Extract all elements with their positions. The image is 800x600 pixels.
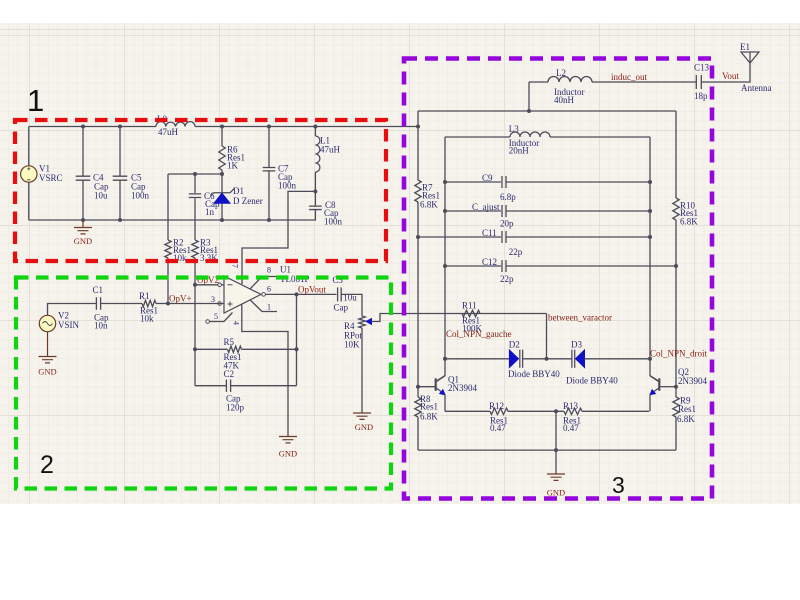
svg-text:GND: GND <box>355 422 373 432</box>
junction C_ajust right <box>648 209 652 213</box>
wire R2 column upper <box>167 174 169 240</box>
resistor R8 <box>415 397 421 417</box>
svg-text:47uH: 47uH <box>320 145 341 155</box>
svg-text:OpV+: OpV+ <box>169 294 192 304</box>
pin 1 stub <box>250 300 277 312</box>
junction L2 riser <box>527 109 531 113</box>
wire emitter row middle <box>508 410 564 412</box>
resistor R11 <box>462 310 480 316</box>
svg-text:10n: 10n <box>94 321 108 331</box>
wire L2 to C13 <box>592 81 696 83</box>
region box 2 green dashed <box>16 278 391 489</box>
capacitor C5 <box>119 127 121 177</box>
svg-text:7: 7 <box>231 264 240 268</box>
svg-text:Antenna: Antenna <box>741 83 772 93</box>
svg-text:Cap: Cap <box>334 303 349 313</box>
diode D2 varactor <box>509 350 518 368</box>
svg-text:GND: GND <box>38 367 56 377</box>
svg-text:6.8K: 6.8K <box>420 412 438 422</box>
inductor L3 <box>510 132 550 137</box>
svg-text:OpVout: OpVout <box>298 285 326 295</box>
svg-text:40nH: 40nH <box>554 95 575 105</box>
svg-text:0.47: 0.47 <box>563 423 579 433</box>
resistor R7 <box>415 180 421 202</box>
svg-text:1K: 1K <box>227 161 239 171</box>
svg-text:6.8K: 6.8K <box>677 414 695 424</box>
svg-text:1: 1 <box>267 303 271 312</box>
svg-text:U1: U1 <box>280 265 291 275</box>
svg-text:R5: R5 <box>224 337 235 347</box>
antenna E1 <box>741 52 759 63</box>
wire outer left column middle <box>417 202 419 397</box>
inductor L2 riser <box>528 82 530 111</box>
svg-text:between_varactor: between_varactor <box>548 313 612 323</box>
wire Q2 emitter <box>649 394 651 411</box>
svg-text:20nH: 20nH <box>509 146 530 156</box>
svg-text:D1: D1 <box>233 186 244 196</box>
wire outer left column upper <box>417 111 419 180</box>
capacitor C2 <box>195 385 226 387</box>
resistor R2 <box>165 240 171 258</box>
resistor R3 <box>192 240 198 258</box>
wire Q1 emitter <box>444 394 446 411</box>
svg-text:100n: 100n <box>131 191 150 201</box>
svg-text:VSIN: VSIN <box>58 320 80 330</box>
svg-text:R12: R12 <box>489 401 504 411</box>
svg-text:GND: GND <box>74 236 92 246</box>
junction C11 right <box>648 235 652 239</box>
resistor R12 <box>490 408 508 414</box>
junction C9 left <box>443 180 447 184</box>
svg-text:1: 1 <box>27 83 44 118</box>
node V1 top wire <box>28 127 30 167</box>
region box 3 purple dashed <box>404 59 712 499</box>
capacitor C11 <box>418 236 501 238</box>
svg-text:C2: C2 <box>224 369 235 379</box>
potentiometer R4 RPot <box>359 316 365 328</box>
svg-text:R11: R11 <box>462 301 477 311</box>
wire C3 to R4 <box>341 294 362 316</box>
wire outer top rail <box>418 110 676 112</box>
svg-text:3: 3 <box>211 295 215 304</box>
svg-text:47uH: 47uH <box>158 127 179 137</box>
pin 8 stub <box>250 277 277 290</box>
capacitor C_ajust <box>445 210 501 212</box>
svg-text:Diode BBY40: Diode BBY40 <box>566 376 618 386</box>
capacitor C1 <box>96 297 100 309</box>
ground GND R4 <box>353 413 371 419</box>
wire feedback column <box>296 294 298 385</box>
junction R5 left <box>193 347 197 351</box>
wire output <box>262 293 266 297</box>
svg-text:C_ajust: C_ajust <box>472 202 500 212</box>
capacitor C13 <box>696 75 701 89</box>
svg-text:L2: L2 <box>556 68 566 78</box>
svg-text:E1: E1 <box>740 42 750 52</box>
junction Q1 base <box>416 385 420 389</box>
capacitor C3 <box>338 287 342 301</box>
wire V2 top <box>48 304 97 316</box>
svg-text:GND: GND <box>279 449 297 459</box>
svg-text:2N3904: 2N3904 <box>678 376 707 386</box>
wire top supply rail right <box>195 126 418 128</box>
svg-text:VSRC: VSRC <box>39 173 63 183</box>
svg-text:2: 2 <box>40 451 54 479</box>
svg-text:10K: 10K <box>344 340 360 350</box>
svg-text:Res1: Res1 <box>678 404 696 414</box>
svg-text:C11: C11 <box>482 228 497 238</box>
wire outer right column lower <box>675 417 677 450</box>
wire top inner rail right <box>550 136 650 138</box>
svg-text:5: 5 <box>214 312 218 321</box>
junction C6 top <box>193 172 197 176</box>
svg-text:C9: C9 <box>482 173 493 183</box>
junction L1 bottom <box>313 189 317 193</box>
junction D1 bottom <box>220 218 224 222</box>
svg-text:6.8p: 6.8p <box>500 192 516 202</box>
junction C4 top <box>81 125 85 129</box>
op-amp U1 TL081P <box>224 276 261 313</box>
junction varactor right <box>648 357 652 361</box>
capacitor C7 <box>268 127 270 168</box>
wire outer right column middle <box>675 220 677 397</box>
resistor R9 <box>673 397 679 417</box>
junction R5 right <box>295 347 299 351</box>
resistor R5 <box>195 348 228 350</box>
capacitor C12 <box>445 265 501 267</box>
junction C5 top <box>118 125 122 129</box>
ground GND region3 <box>547 474 565 480</box>
svg-text:C1: C1 <box>93 285 104 295</box>
junction R6 bottom <box>220 172 224 176</box>
svg-text:120p: 120p <box>226 403 245 413</box>
capacitor C8 <box>314 191 316 206</box>
svg-text:Vout: Vout <box>722 71 739 81</box>
svg-text:6: 6 <box>267 285 271 294</box>
svg-text:Col_NPN_gauche: Col_NPN_gauche <box>446 329 512 339</box>
junction Q2 base <box>674 385 678 389</box>
wire C13 to antenna <box>701 63 750 82</box>
junction C9 right <box>648 180 652 184</box>
junction OpV2 <box>193 283 197 287</box>
svg-text:R1: R1 <box>139 291 150 301</box>
ground GND V2 <box>47 332 49 357</box>
junction R6 top <box>220 125 224 129</box>
resistor R13 <box>564 408 582 414</box>
pin 5 stub <box>206 320 210 324</box>
svg-text:R4: R4 <box>344 321 355 331</box>
svg-text:induc_out: induc_out <box>611 72 647 82</box>
svg-text:10k: 10k <box>140 314 154 324</box>
svg-text:100n: 100n <box>278 180 297 190</box>
svg-text:4: 4 <box>232 321 241 325</box>
wire Q2 base <box>660 386 676 388</box>
junction varactor mid <box>545 357 549 361</box>
wire R1 to opamp <box>156 303 221 305</box>
voltage source V2 <box>39 315 55 331</box>
wire R2 lower <box>167 258 169 304</box>
svg-text:6.8K: 6.8K <box>680 217 698 227</box>
svg-text:R13: R13 <box>563 401 579 411</box>
svg-text:Col_NPN_droit: Col_NPN_droit <box>650 349 708 359</box>
svg-text:3: 3 <box>612 472 625 498</box>
junction ground rail <box>554 448 558 452</box>
svg-text:10u: 10u <box>94 191 108 201</box>
wire ground column <box>555 411 557 474</box>
diode D3 varactor <box>572 350 575 368</box>
junction supply entry <box>416 125 420 129</box>
wire top supply rail left <box>29 126 156 128</box>
capacitor C6 <box>194 174 196 193</box>
junction C11 left <box>416 235 420 239</box>
diode D1 zener <box>221 174 223 193</box>
resistor R1 <box>142 300 156 306</box>
svg-text:18p: 18p <box>694 91 708 101</box>
inductor L1 <box>314 127 316 137</box>
junction C7 top <box>267 125 271 129</box>
svg-text:20p: 20p <box>500 219 514 229</box>
svg-text:D3: D3 <box>571 340 582 350</box>
pin 4 wire to ground <box>242 304 288 436</box>
wire Q1 base <box>418 386 435 388</box>
wire inverting input <box>195 284 218 286</box>
ground GND region1 <box>82 220 84 228</box>
svg-text:1n: 1n <box>205 207 215 217</box>
inductor L0 <box>156 122 195 127</box>
wire R3 lower / OpV2 column <box>194 258 196 386</box>
junction C_ajust left <box>443 209 447 213</box>
junction node OpV+ <box>166 302 170 306</box>
wire between_varactor run <box>372 314 547 322</box>
wire inner right column <box>650 137 659 381</box>
wire emitter row left <box>445 410 490 412</box>
svg-text:C13: C13 <box>694 63 710 73</box>
svg-text:Diode BBY40: Diode BBY40 <box>508 369 560 379</box>
svg-text:6.8K: 6.8K <box>420 200 438 210</box>
wire varactor row middle <box>523 358 572 360</box>
node zener wire horizontal <box>168 173 222 175</box>
wire noninverting input pin <box>218 302 222 306</box>
junction OpVout <box>295 292 299 296</box>
junction C4 bottom <box>81 218 85 222</box>
svg-text:100n: 100n <box>324 217 343 227</box>
svg-text:8: 8 <box>267 266 271 275</box>
wire outer left column lower <box>417 417 419 450</box>
svg-text:0.47: 0.47 <box>490 423 506 433</box>
wire bottom rail region3 <box>418 449 676 451</box>
junction C5 bottom <box>118 218 122 222</box>
wire emitter row right <box>582 410 649 412</box>
resistor R6 <box>221 127 223 147</box>
svg-text:D2: D2 <box>509 340 520 350</box>
svg-text:GND: GND <box>547 488 565 498</box>
wire varactor riser <box>546 314 548 359</box>
wire V1 bottom <box>28 182 30 220</box>
svg-text:C12: C12 <box>482 257 497 267</box>
wire C1 to R1 <box>101 303 142 305</box>
R4 wiper arrow <box>366 319 371 325</box>
svg-text:2N3904: 2N3904 <box>448 383 477 393</box>
svg-text:Res1: Res1 <box>420 402 438 412</box>
voltage source V1 <box>21 166 37 182</box>
inductor L2 <box>529 81 548 83</box>
region box 1 red dashed <box>15 120 386 261</box>
junction C7 bottom <box>267 218 271 222</box>
svg-text:V2: V2 <box>58 311 69 321</box>
junction emitter mid <box>554 409 558 413</box>
resistor R10 <box>673 198 679 220</box>
wire outer right column upper <box>675 111 677 198</box>
svg-text:L3: L3 <box>509 124 519 134</box>
junction L1 top <box>313 125 317 129</box>
junction C12 left <box>443 264 447 268</box>
svg-text:D Zener: D Zener <box>233 196 263 206</box>
capacitor C9 <box>445 181 501 183</box>
wire varactor row left <box>445 358 509 360</box>
wire opamp V+ supply staircase <box>242 191 315 284</box>
junction varactor left <box>443 357 447 361</box>
ground GND opamp <box>279 437 297 443</box>
junction C12 right <box>674 264 678 268</box>
capacitor C4 <box>82 127 84 177</box>
svg-text:22p: 22p <box>509 247 523 257</box>
wire inner left column <box>437 137 446 381</box>
wire bottom rail <box>29 210 316 220</box>
wire varactor row right <box>585 358 651 360</box>
inductor L3 top inner rail left <box>445 136 510 138</box>
svg-text:22p: 22p <box>500 274 514 284</box>
svg-text:V1: V1 <box>39 164 50 174</box>
